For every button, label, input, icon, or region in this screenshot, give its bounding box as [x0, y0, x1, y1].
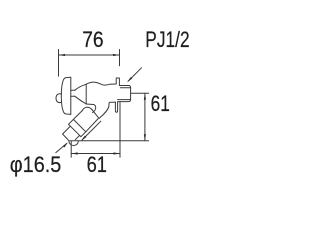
upper stub at wall [116, 78, 119, 86]
arrowhead dim61B left [71, 152, 78, 154]
svg-text:76: 76 [82, 27, 103, 52]
dim 61 bottom: dimension line [71, 153, 120, 155]
dim 61 right: extension top [131, 92, 149, 94]
wheel handle [61, 77, 71, 114]
svg-text:61: 61 [87, 152, 107, 177]
wall flange (PJ1/2 thread) [118, 86, 131, 102]
bonnet cone [75, 84, 86, 104]
body bottom left [86, 103, 93, 106]
svg-text:61: 61 [151, 91, 170, 116]
arrowhead dim76 left [59, 54, 66, 56]
leader PJ1/2 [128, 68, 141, 81]
spout edge arrow line [82, 121, 101, 140]
dim 61 bottom: extension left [70, 142, 72, 158]
dim 76: dimension line [59, 54, 120, 56]
lower stub (U) [115, 102, 117, 112]
arrowhead phi leader [63, 142, 68, 147]
arrowhead dim76 right [113, 54, 120, 56]
dim 76: extension line left [58, 50, 60, 77]
flange chamfer lines [118, 88, 131, 100]
spout neck lower-right edge with fillet [99, 106, 109, 118]
coupling nut top corner (boss hump) [82, 107, 99, 118]
arrowhead dim61R bottom [144, 134, 146, 141]
arrowhead PJ leader [127, 77, 132, 82]
coupling nut sides [69, 111, 99, 137]
arrowhead spout edge line [81, 136, 86, 141]
dim 61 right: dimension line [144, 93, 146, 141]
svg-text:φ16.5: φ16.5 [10, 152, 62, 177]
dim 61 right: extension bottom (long) [70, 140, 149, 142]
handle hub cap [56, 94, 61, 103]
bonnet nut face [85, 84, 87, 104]
body top profile [86, 82, 116, 85]
svg-text:PJ1/2: PJ1/2 [145, 27, 189, 52]
body bottom right / fillet to spout [109, 102, 116, 106]
spout neck upper-left edge with fillet [93, 105, 96, 113]
leader phi16.5 [56, 144, 67, 153]
arrowhead dim61R top [144, 93, 146, 100]
dim 76: extension line right [119, 50, 121, 66]
stem [71, 90, 75, 96]
hose nipple [63, 126, 80, 141]
arrowhead dim61B right [114, 152, 121, 154]
nipple ball end [69, 141, 79, 146]
dim 61 bottom: extension right [119, 103, 121, 158]
